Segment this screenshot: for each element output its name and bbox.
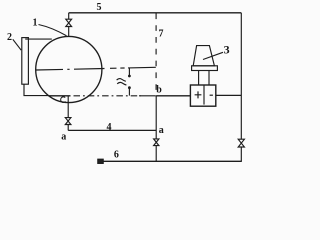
- vertical pipe at node b/a: [155, 96, 157, 139]
- valve on drain pipe: [65, 118, 71, 125]
- valve on vent riser: [66, 19, 72, 26]
- dashed impulse line (label 7): [155, 13, 157, 90]
- leader line for label 3: [203, 52, 223, 59]
- svg-text:2: 2: [7, 32, 12, 43]
- svg-text:5: 5: [97, 2, 102, 13]
- svg-text:b: b: [156, 85, 162, 96]
- vessel drain pipe: [67, 96, 69, 118]
- svg-text:1: 1: [33, 18, 38, 29]
- right bus pipe (down right side): [240, 13, 242, 139]
- svg-text:7: 7: [159, 28, 164, 39]
- bottom header pipe (line 6): [99, 160, 242, 162]
- valve on right bus: [238, 139, 244, 147]
- dimension line lower segment with arrow: [128, 88, 130, 96]
- svg-text:a: a: [159, 125, 164, 136]
- level gauge LG (label 2): [22, 38, 29, 85]
- vent riser pipe (vessel top to header): [68, 13, 70, 19]
- dimension arrowheads: [128, 75, 131, 78]
- blind end square on line 6: [98, 159, 103, 163]
- svg-text:a: a: [61, 132, 66, 143]
- centerline of vessel (dash-dot): [36, 67, 156, 70]
- liquid level line (solid chord): [48, 95, 70, 97]
- vessel V1 (drum, label 1): [36, 36, 102, 102]
- plus electrode mark: [195, 91, 202, 98]
- valve on vertical pipe (below a): [154, 139, 159, 146]
- right support leg: [208, 71, 210, 86]
- pipe from cell to right bus: [216, 94, 242, 96]
- left support leg: [198, 71, 200, 86]
- electrolytic cell box (+/-): [190, 85, 215, 106]
- svg-text:4: 4: [107, 122, 112, 133]
- float/motor body (label 3, trapezoid): [193, 46, 214, 66]
- level line extension (dash-dot): [74, 95, 142, 97]
- svg-text:3: 3: [224, 43, 230, 57]
- leader line for label 1: [39, 25, 67, 36]
- top header pipe (line 5): [69, 12, 242, 14]
- flange under trapezoid: [192, 66, 218, 71]
- cell divider plate: [203, 85, 205, 105]
- level squiggle mark (approx sign): [117, 79, 126, 82]
- minus electrode mark: [210, 94, 213, 96]
- svg-text:6: 6: [114, 150, 119, 161]
- node c (curl mark): [61, 97, 66, 103]
- leader line for label 2: [13, 39, 21, 50]
- pipe from node b to cell: [156, 95, 190, 97]
- dimension line upper segment with arrow: [128, 68, 130, 76]
- pipe line 4 (horizontal): [68, 129, 156, 131]
- gauge bottom connecting pipe (L-shape): [24, 84, 48, 95]
- gauge top connecting pipe: [25, 38, 52, 40]
